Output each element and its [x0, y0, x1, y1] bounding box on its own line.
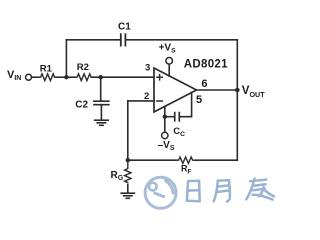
- svg-text:VIN: VIN: [7, 69, 21, 82]
- svg-text:+VS: +VS: [159, 43, 177, 55]
- op-amp U1 triangle: [154, 68, 197, 112]
- ground (RG): [121, 193, 134, 198]
- svg-text:2: 2: [144, 91, 149, 102]
- watermark character chen: [246, 179, 274, 200]
- wire: node D to CC: [165, 116, 174, 118]
- terminal +VS circle: [166, 58, 173, 65]
- wire: bottom rail node C to RF: [128, 159, 177, 161]
- capacitor C2: [94, 101, 109, 105]
- svg-text:RG: RG: [111, 170, 124, 182]
- node D junction dot (pin4/CC): [163, 115, 167, 119]
- resistor R1: [39, 74, 57, 81]
- capacitor C1: [121, 34, 126, 45]
- resistor RG (vertical): [125, 160, 131, 182]
- watermark character yue (moon): [214, 180, 230, 202]
- wire: RG to ground: [127, 185, 129, 193]
- svg-text:AD8021: AD8021: [184, 59, 228, 71]
- watermark logo tail stroke: [155, 193, 164, 196]
- wire: CC to pin 5 riser: [180, 92, 192, 116]
- svg-text:5: 5: [196, 94, 202, 106]
- wire: R2 through node B to op-amp pin 3: [92, 76, 155, 78]
- capacitor CC: [175, 113, 180, 121]
- svg-text:3: 3: [145, 63, 150, 74]
- svg-text:C1: C1: [118, 22, 131, 33]
- ground (C2): [95, 120, 109, 125]
- svg-text:VOUT: VOUT: [242, 85, 265, 99]
- op-amp plus symbol: [157, 75, 162, 80]
- wire: feedback riser to bottom node: [127, 101, 129, 160]
- wire: node A to R2: [66, 76, 75, 78]
- node A junction dot: [64, 75, 68, 79]
- wire: op-amp output to VOUT node: [197, 89, 238, 91]
- svg-text:–VS: –VS: [158, 140, 175, 152]
- node VOUT junction dot: [235, 88, 240, 93]
- svg-text:R2: R2: [77, 62, 89, 73]
- svg-text:CC: CC: [173, 126, 185, 138]
- wire: top rail right of C1 to right rail: [126, 39, 237, 41]
- svg-text:RF: RF: [181, 164, 192, 176]
- resistor RF: [177, 157, 195, 163]
- resistor R2: [75, 74, 93, 81]
- wire: RF to right rail: [195, 159, 237, 161]
- wire: riser from R1/R2 node to top rail: [65, 40, 67, 77]
- wire: pin 2 input: [128, 100, 154, 102]
- op-amp minus symbol: [157, 100, 162, 102]
- wire: +VS to op-amp pin 7: [168, 64, 170, 76]
- svg-text:R1: R1: [40, 64, 53, 75]
- svg-text:6: 6: [201, 78, 207, 90]
- terminal VIN circle: [26, 74, 32, 80]
- watermark logo diagonal stroke: [166, 181, 174, 193]
- svg-text:C2: C2: [75, 100, 88, 111]
- wire: node B down to C2: [100, 77, 102, 101]
- watermark logo ring: [145, 177, 176, 208]
- wire: right rail down to bottom rail: [236, 40, 238, 161]
- node C junction dot (RG/RF): [126, 158, 130, 162]
- wire: VIN to R1: [32, 76, 39, 78]
- wire: pin 4 down from triangle: [164, 106, 166, 132]
- wire: R1 to node A: [56, 76, 67, 78]
- wire: C2 to ground: [100, 105, 102, 120]
- watermark logo inner circle: [149, 183, 157, 191]
- wire: top rail left of C1: [66, 39, 120, 41]
- watermark character ri (sun): [187, 181, 200, 202]
- terminal -VS circle: [162, 132, 168, 138]
- node B junction dot: [99, 75, 103, 79]
